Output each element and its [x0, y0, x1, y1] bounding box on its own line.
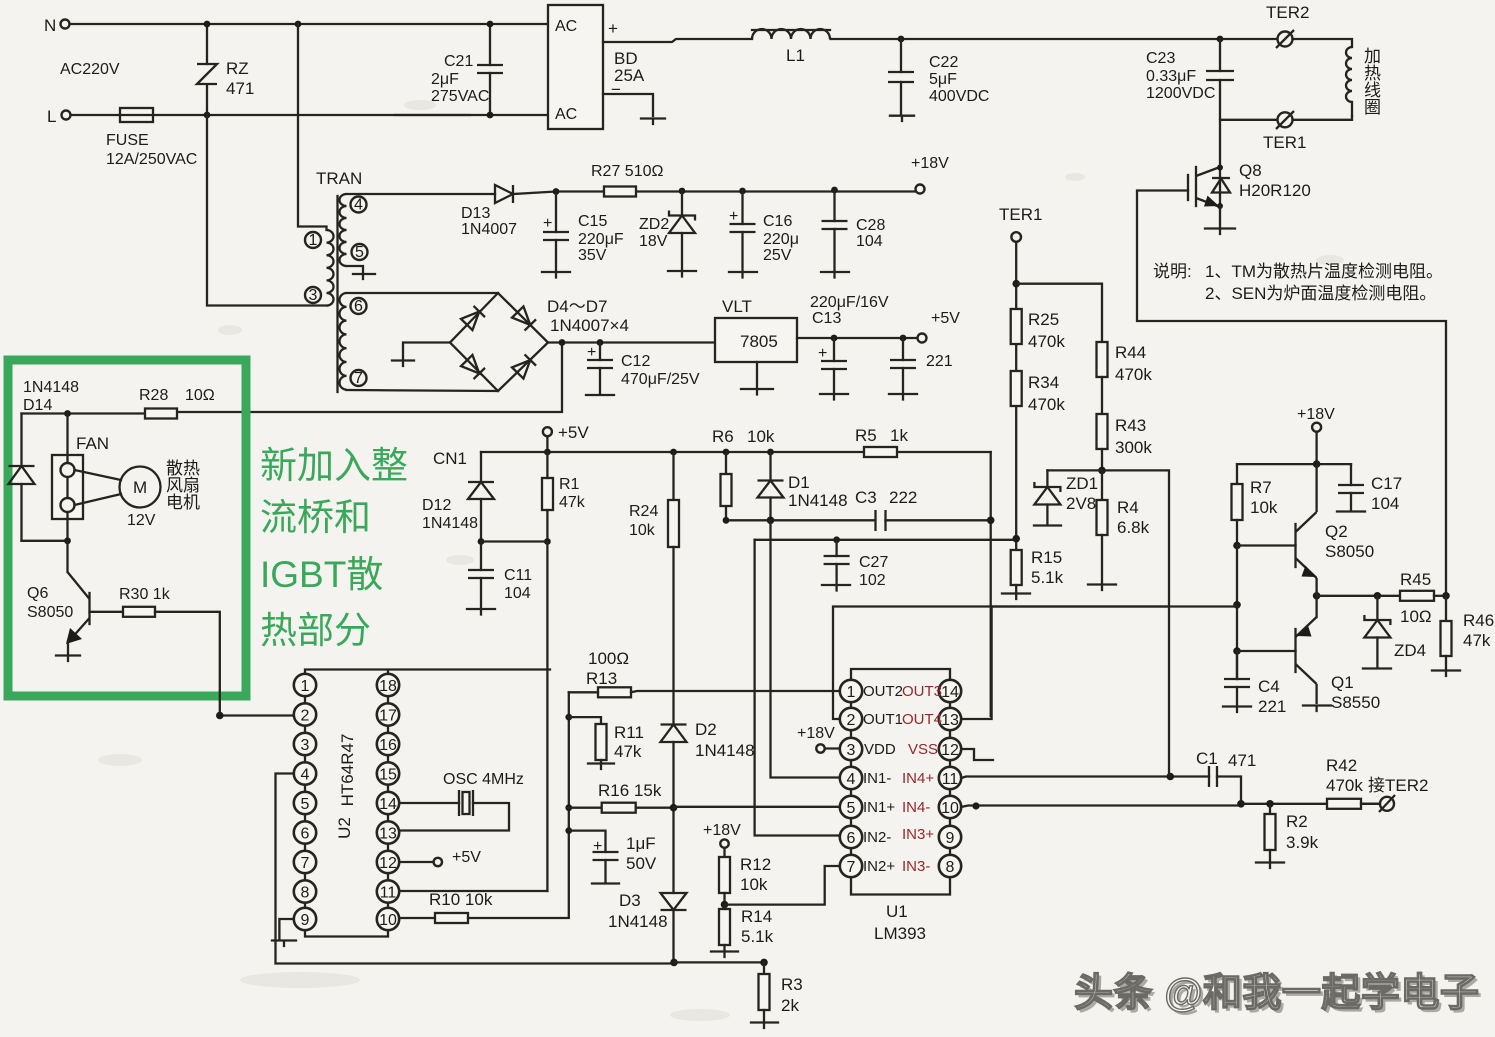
resistor R4 6.8k — [1088, 470, 1150, 590]
ground bridge — [392, 361, 414, 367]
svg-text:5.1k: 5.1k — [1031, 568, 1064, 587]
node +18V terminal above R12 — [703, 822, 741, 848]
wire R30 node to U2 pin2 — [220, 714, 294, 716]
resistor R13 — [569, 687, 840, 697]
svg-text:R43: R43 — [1115, 416, 1146, 435]
transistor Q1 S8550 — [1233, 617, 1380, 712]
wire R24 bottom through D2 D3 — [672, 547, 674, 962]
capacitor C23 0.33uF 1200VDC — [1146, 36, 1234, 119]
resistor R42 470k — [1326, 756, 1379, 809]
svg-text:C17: C17 — [1371, 474, 1402, 493]
wire bridge left corner to ground — [403, 343, 450, 360]
wire TER1 down — [1015, 242, 1017, 550]
svg-text:ZD4: ZD4 — [1394, 641, 1426, 660]
capacitor C28 104 — [821, 187, 885, 278]
svg-text:471: 471 — [1228, 751, 1256, 770]
svg-text:R12: R12 — [740, 855, 771, 874]
svg-text:220μF: 220μF — [578, 231, 624, 248]
fuse FUSE 12A/250VAC — [106, 108, 197, 168]
svg-text:3: 3 — [301, 737, 310, 754]
crystal OSC — [399, 790, 509, 831]
wire 7805 output to +5V — [797, 337, 917, 339]
diode ZD4 (zener) — [1363, 592, 1426, 669]
svg-text:+18V: +18V — [797, 725, 835, 742]
svg-text:R25: R25 — [1028, 310, 1059, 329]
wire D13 to +18V rail — [513, 192, 917, 195]
wire TER2 to heating coil — [1293, 39, 1353, 47]
wire U2 pin9 ground — [279, 919, 293, 939]
diode D3 1N4148 — [608, 891, 687, 931]
wire bridge output down to fan R28 — [177, 343, 562, 413]
svg-text:300k: 300k — [1115, 438, 1152, 457]
svg-text:OUT1: OUT1 — [863, 711, 903, 728]
svg-text:L1: L1 — [786, 46, 805, 65]
svg-text:3.9k: 3.9k — [1286, 833, 1319, 852]
svg-text:M: M — [133, 478, 147, 497]
svg-text:6: 6 — [847, 830, 856, 847]
svg-text:+5V: +5V — [558, 423, 589, 442]
svg-text:IGBT散: IGBT散 — [260, 554, 383, 595]
svg-text:11: 11 — [942, 771, 959, 788]
svg-text:H20R120: H20R120 — [1239, 181, 1311, 200]
svg-text:U2: U2 — [335, 817, 354, 839]
resistor R1 47k — [542, 452, 586, 545]
resistor R15 5.1k — [1002, 535, 1064, 599]
svg-text:HT64R47: HT64R47 — [338, 734, 357, 807]
svg-text:+: + — [587, 344, 596, 361]
transformer core — [336, 196, 338, 392]
capacitor 221 — [889, 335, 953, 400]
svg-text:IN4+: IN4+ — [902, 770, 934, 787]
capacitor C11 104 — [467, 538, 532, 614]
svg-text:13: 13 — [379, 826, 397, 843]
svg-text:47k: 47k — [614, 742, 642, 761]
svg-text:R7: R7 — [1250, 478, 1272, 497]
wire BD- output — [603, 94, 653, 116]
svg-text:FAN: FAN — [76, 434, 109, 453]
svg-text:AC: AC — [555, 106, 577, 123]
svg-text:C1: C1 — [1196, 749, 1218, 768]
wire R5 right rail corner down (OUT pull node) — [990, 452, 992, 716]
wire Q8 gate to driver (left and down and right) — [1137, 191, 1446, 594]
regulator VLT 7805 — [715, 297, 797, 395]
svg-text:221: 221 — [1258, 697, 1286, 716]
motor M 12V — [75, 467, 161, 530]
svg-text:1N4148: 1N4148 — [23, 379, 79, 396]
svg-text:IN2+: IN2+ — [863, 858, 895, 875]
wire N line — [70, 23, 548, 25]
resistor R30 1k — [90, 586, 220, 716]
svg-text:R5: R5 — [855, 426, 877, 445]
svg-text:TER1: TER1 — [1263, 133, 1306, 152]
svg-text:+: + — [818, 345, 827, 362]
wire N drop to primary — [298, 24, 327, 230]
svg-text:C28: C28 — [856, 217, 885, 234]
wire coil bottom to TER1 — [1293, 116, 1352, 120]
svg-text:IN1+: IN1+ — [863, 799, 895, 816]
svg-text:C3: C3 — [855, 488, 877, 507]
svg-text:OUT4: OUT4 — [902, 711, 942, 728]
svg-text:R16 15k: R16 15k — [598, 781, 662, 800]
inductor heating coil 加热线圈 — [1346, 47, 1381, 117]
diode ZD1 2V8 (zener) — [1034, 470, 1098, 525]
svg-text:R27 510Ω: R27 510Ω — [591, 163, 663, 180]
svg-text:流桥和: 流桥和 — [260, 497, 371, 538]
svg-text:R24: R24 — [629, 503, 658, 520]
svg-text:−: − — [611, 80, 621, 99]
svg-text:C22: C22 — [929, 54, 958, 71]
svg-text:+18V: +18V — [703, 822, 741, 839]
svg-text:说明:: 说明: — [1153, 262, 1192, 281]
svg-text:6: 6 — [354, 298, 363, 315]
resistor R12 10k — [719, 848, 771, 905]
svg-text:470k: 470k — [1028, 332, 1065, 351]
resistor R45 10ohm — [1400, 570, 1450, 626]
svg-text:4: 4 — [354, 197, 363, 214]
diode D13 1N4007 — [461, 185, 517, 238]
svg-text:8: 8 — [946, 859, 955, 876]
transformer secondary winding 4-5 — [340, 194, 368, 266]
svg-text:471: 471 — [226, 79, 254, 98]
svg-text:D3: D3 — [619, 891, 641, 910]
svg-text:ZD1: ZD1 — [1066, 474, 1098, 493]
svg-text:TRAN: TRAN — [316, 169, 362, 188]
svg-text:OUT3: OUT3 — [902, 683, 942, 700]
svg-text:D2: D2 — [695, 720, 717, 739]
svg-text:C21: C21 — [444, 53, 473, 70]
svg-text:+: + — [543, 215, 552, 232]
svg-text:12: 12 — [379, 855, 397, 872]
svg-text:+: + — [593, 838, 602, 855]
node +5V terminal — [918, 310, 961, 343]
svg-text:6: 6 — [301, 826, 310, 843]
svg-text:470μF/25V: 470μF/25V — [621, 371, 700, 388]
wire winding4 top to D13 — [347, 193, 496, 195]
svg-text:2k: 2k — [781, 996, 799, 1015]
svg-text:+5V: +5V — [452, 849, 481, 866]
svg-text:1: 1 — [847, 684, 856, 701]
svg-text:Q8: Q8 — [1239, 161, 1262, 180]
wire fan supply node — [22, 412, 146, 414]
node +5V terminal above rail — [543, 423, 589, 442]
svg-text:2: 2 — [847, 712, 856, 729]
svg-text:R10 10k: R10 10k — [429, 890, 493, 909]
resistor R7 10k — [1232, 464, 1278, 545]
wire Q8 emitter to ground — [1219, 206, 1221, 227]
svg-text:47k: 47k — [1463, 631, 1491, 650]
svg-text:R34: R34 — [1028, 373, 1059, 392]
svg-text:R45: R45 — [1400, 570, 1431, 589]
svg-text:R42: R42 — [1326, 756, 1357, 775]
svg-text:1N4007: 1N4007 — [461, 221, 517, 238]
svg-text:CN1: CN1 — [433, 449, 467, 468]
svg-text:IN3-: IN3- — [902, 858, 930, 875]
capacitor C1 471 — [1167, 749, 1257, 808]
svg-text:5: 5 — [847, 800, 856, 817]
svg-text:10Ω: 10Ω — [1400, 607, 1432, 626]
svg-text:5: 5 — [355, 244, 364, 261]
svg-text:+: + — [608, 19, 618, 38]
diode D14 flyback — [9, 414, 35, 541]
svg-text:400VDC: 400VDC — [929, 88, 989, 105]
svg-text:18V: 18V — [639, 233, 668, 250]
svg-text:R2: R2 — [1286, 812, 1308, 831]
resistor R10 10k — [399, 692, 569, 923]
wire D1 node down to U1 pin4 — [771, 520, 841, 777]
wire +5V rail — [481, 436, 991, 452]
capacitor C3 222 — [855, 488, 995, 531]
svg-text:D14: D14 — [23, 397, 52, 414]
transformer secondary winding 6-7 — [340, 293, 367, 390]
svg-text:C4: C4 — [1258, 677, 1280, 696]
svg-text:AC220V: AC220V — [60, 61, 120, 78]
svg-text:25V: 25V — [763, 247, 792, 264]
svg-text:470k: 470k — [1326, 776, 1363, 795]
svg-text:1200VDC: 1200VDC — [1146, 85, 1215, 102]
inductor L1 — [752, 29, 830, 65]
svg-text:新加入整: 新加入整 — [260, 445, 408, 486]
svg-text:C27: C27 — [859, 554, 888, 571]
terminal TER1 — [999, 205, 1042, 242]
svg-text:16: 16 — [379, 737, 397, 754]
svg-text:S8050: S8050 — [1325, 542, 1374, 561]
svg-text:R46: R46 — [1463, 611, 1494, 630]
svg-text:R3: R3 — [781, 975, 803, 994]
resistor R34 470k — [1011, 371, 1066, 414]
resistor R3 2k — [751, 959, 803, 1028]
svg-text:104: 104 — [1371, 494, 1399, 513]
capacitor C17 104 — [1337, 464, 1402, 513]
svg-text:电机: 电机 — [166, 493, 200, 512]
wire R7 node down to Q1 base — [1236, 546, 1238, 680]
svg-text:C12: C12 — [621, 353, 650, 370]
terminal 接TER2 — [1368, 776, 1428, 812]
svg-text:R44: R44 — [1115, 343, 1146, 362]
svg-text:12A/250VAC: 12A/250VAC — [106, 151, 197, 168]
svg-text:104: 104 — [504, 585, 531, 602]
resistor R6 — [721, 449, 732, 521]
wire U1 pin2 loop to pin13 and pull node — [833, 607, 1169, 720]
wire C27/R15 line — [755, 539, 1017, 541]
svg-text:RZ: RZ — [226, 59, 249, 78]
wire D12/C11 to R1 bottom node — [481, 540, 547, 542]
U1 pin circles left 1-7 — [840, 680, 862, 877]
green annotation box — [8, 360, 246, 696]
svg-text:R14: R14 — [741, 907, 772, 926]
op-amp U1 body — [851, 680, 950, 895]
svg-text:10Ω: 10Ω — [185, 387, 215, 404]
svg-text:1N4148: 1N4148 — [422, 515, 478, 532]
bridge rectifier D4~D7 1N4007x4 — [450, 293, 629, 391]
svg-text:IN1-: IN1- — [863, 770, 891, 787]
capacitor C4 221 — [1223, 651, 1286, 716]
svg-text:Q2: Q2 — [1325, 522, 1348, 541]
svg-text:1k: 1k — [890, 426, 908, 445]
node R43/R4/ZD1 junction — [1098, 467, 1106, 475]
svg-text:35V: 35V — [578, 247, 607, 264]
resistor R16 — [565, 803, 677, 813]
wire junction to ZD1 and to drive column — [1047, 470, 1169, 776]
svg-text:275VAC: 275VAC — [431, 88, 489, 105]
svg-text:R30 1k: R30 1k — [119, 586, 171, 603]
capacitor 1uF 50V — [565, 827, 657, 883]
wire to R44 chain — [1016, 284, 1102, 342]
ground U2 pin9 — [272, 941, 296, 947]
resistor R28 10ohm — [139, 387, 215, 419]
svg-text:220μ: 220μ — [763, 231, 799, 248]
wire node A line (R6/D1/C3 row) — [726, 519, 875, 521]
svg-text:10k: 10k — [629, 522, 656, 539]
transistor Q8 H20R120 (IGBT) — [1188, 161, 1311, 209]
wire L line — [71, 114, 548, 116]
svg-text:LM393: LM393 — [874, 924, 926, 943]
svg-text:1N4148: 1N4148 — [788, 491, 848, 510]
svg-text:2V8: 2V8 — [1066, 494, 1096, 513]
svg-text:4: 4 — [301, 767, 310, 784]
svg-text:8: 8 — [301, 885, 310, 902]
wire U1 pin11 to C1 node — [961, 777, 1209, 779]
wire bottom rail D3 to R3 — [670, 959, 678, 967]
ground Q8 — [1205, 229, 1235, 235]
capacitor C16 220u 25V — [729, 188, 799, 278]
wire L bold scan segment — [395, 114, 470, 116]
svg-text:C15: C15 — [578, 213, 607, 230]
svg-text:L: L — [47, 107, 56, 126]
svg-text:10: 10 — [941, 800, 959, 817]
wire U2 pin4 riser to bottom rail — [276, 774, 675, 964]
svg-text:470k: 470k — [1028, 395, 1065, 414]
svg-text:R1: R1 — [559, 476, 580, 493]
bridge BD 25A box — [548, 5, 645, 129]
svg-text:12: 12 — [941, 742, 959, 759]
resistor R25 470k — [1011, 309, 1066, 351]
svg-text:OSC 4MHz: OSC 4MHz — [443, 771, 524, 788]
svg-text:0.33μF: 0.33μF — [1146, 68, 1196, 85]
svg-text:1N4007×4: 1N4007×4 — [550, 316, 629, 335]
svg-text:VLT: VLT — [722, 297, 752, 316]
svg-text:5: 5 — [301, 796, 310, 813]
resistor R11 47k — [565, 714, 644, 769]
svg-text:C13: C13 — [812, 310, 841, 327]
svg-text:5.1k: 5.1k — [741, 927, 774, 946]
svg-text:2: 2 — [301, 708, 310, 725]
svg-text:R28: R28 — [139, 387, 168, 404]
transistor Q6 S8050 — [27, 541, 90, 661]
terminal TER2 (circle with slash) — [1220, 3, 1309, 48]
wire winding6 to bridge top corner — [347, 292, 499, 294]
svg-text:221: 221 — [926, 353, 953, 370]
op-amp U2 body — [305, 670, 550, 937]
svg-text:1: 1 — [309, 232, 318, 249]
svg-text:D12: D12 — [422, 497, 451, 514]
svg-text:U1: U1 — [886, 902, 908, 921]
svg-text:R6: R6 — [712, 427, 734, 446]
svg-text:IN4-: IN4- — [902, 799, 930, 816]
svg-text:10: 10 — [379, 912, 397, 929]
node emitter junction — [1313, 592, 1321, 600]
svg-text:2、SEN为炉面温度检测电阻。: 2、SEN为炉面温度检测电阻。 — [1205, 284, 1436, 303]
svg-text:R4: R4 — [1117, 498, 1139, 517]
terminal TER1 (circle with slash) — [1263, 111, 1306, 152]
svg-text:220μF/16V: 220μF/16V — [810, 294, 889, 311]
wire +18V rail driver — [1237, 432, 1351, 464]
svg-text:6.8k: 6.8k — [1117, 518, 1150, 537]
connector FAN — [52, 414, 83, 541]
ground U1 pin12 (VSS) — [961, 749, 993, 760]
capacitor C21 2uF 275VAC — [431, 28, 503, 111]
wire line B down to U1 pin6 — [755, 540, 840, 836]
wire U1 pin1-pin14 top arc — [851, 669, 950, 680]
wire R12/R14 node to U1 pin7 — [725, 866, 841, 905]
svg-text:11: 11 — [380, 885, 397, 902]
svg-text:5μF: 5μF — [929, 71, 957, 88]
svg-text:10k: 10k — [1250, 498, 1278, 517]
node drive junction — [1233, 601, 1241, 609]
svg-text:Q6: Q6 — [27, 585, 48, 602]
svg-text:接TER2: 接TER2 — [1368, 776, 1428, 795]
svg-text:7: 7 — [301, 855, 310, 872]
node N terminal — [44, 16, 70, 35]
svg-text:S8050: S8050 — [27, 604, 73, 621]
svg-text:1、TM为散热片温度检测电阻。: 1、TM为散热片温度检测电阻。 — [1205, 262, 1443, 281]
ground BD- — [641, 119, 665, 125]
svg-text:+: + — [729, 208, 738, 225]
svg-text:3: 3 — [847, 742, 856, 759]
resistor R14 5.1k — [711, 901, 774, 957]
wire flyback bottom to fan low node — [22, 540, 68, 542]
diode D12 1N4148 — [422, 452, 494, 542]
wire BD+ output to L1 — [603, 39, 752, 42]
node +18V terminal at U1 pin3 — [797, 725, 840, 753]
svg-text:7: 7 — [354, 370, 363, 387]
U1 pin circles right 14-8 — [939, 680, 961, 877]
svg-text:10k: 10k — [740, 875, 768, 894]
node L terminal — [47, 107, 71, 126]
svg-text:C23: C23 — [1146, 50, 1175, 67]
svg-text:VDD: VDD — [864, 741, 896, 758]
svg-text:9: 9 — [301, 912, 310, 929]
resistor R46 47k — [1432, 596, 1494, 676]
svg-text:14: 14 — [941, 684, 959, 701]
U1 pin function labels — [863, 683, 942, 875]
svg-text:9: 9 — [946, 830, 955, 847]
svg-text:102: 102 — [859, 572, 886, 589]
label 散热风扇电机 — [166, 459, 200, 512]
svg-text:S8550: S8550 — [1331, 693, 1380, 712]
svg-text:D13: D13 — [461, 205, 490, 222]
diode ZD2 18V (zener) — [639, 188, 696, 277]
diode D2 1N4148 — [661, 720, 755, 760]
svg-text:15: 15 — [379, 767, 397, 784]
wire U2 pin11 to R1/D12 node riser — [399, 890, 547, 892]
node +5V terminal at U2 pin12 — [399, 849, 481, 866]
svg-text:TER1: TER1 — [999, 205, 1042, 224]
svg-text:470k: 470k — [1115, 365, 1152, 384]
svg-text:100Ω: 100Ω — [588, 649, 629, 668]
resistor R43 300k — [1097, 414, 1153, 470]
svg-text:1N4148: 1N4148 — [695, 741, 755, 760]
svg-text:+18V: +18V — [911, 155, 949, 172]
svg-text:R15: R15 — [1031, 548, 1062, 567]
wire primary bottom to L line vertical — [207, 115, 327, 306]
svg-text:热部分: 热部分 — [260, 610, 371, 651]
resistor R5 — [770, 447, 897, 457]
svg-text:4: 4 — [847, 771, 856, 788]
svg-text:7805: 7805 — [740, 332, 778, 351]
svg-text:47k: 47k — [559, 494, 586, 511]
svg-text:104: 104 — [856, 233, 883, 250]
svg-text:ZD2: ZD2 — [639, 216, 669, 233]
